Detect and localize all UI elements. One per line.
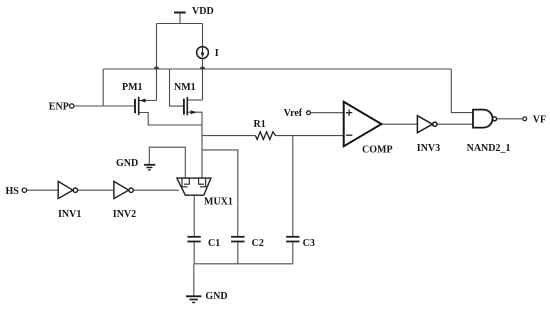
svg-text:GND: GND xyxy=(116,158,138,169)
svg-text:INV3: INV3 xyxy=(417,143,440,154)
wire MUX output to C1 xyxy=(193,195,195,237)
svg-text:INV2: INV2 xyxy=(113,209,136,220)
resistor R1 xyxy=(255,132,275,140)
wire PM1 source lead xyxy=(139,113,202,126)
wire VDD stem xyxy=(179,13,181,24)
ground bottom xyxy=(186,296,201,302)
transistor NM1 xyxy=(184,97,187,115)
minus input mark xyxy=(346,134,352,136)
power VDD xyxy=(174,12,186,14)
current source I xyxy=(197,47,209,59)
inverter INV3 xyxy=(417,116,437,133)
ground mid xyxy=(144,165,155,170)
capacitor C1 xyxy=(187,237,200,242)
wire R1 to comparator minus input xyxy=(276,135,344,137)
nand gate NAND2_1 xyxy=(473,110,493,128)
inverter INV1 xyxy=(58,181,77,198)
capacitor C3 xyxy=(286,237,299,242)
inverter INV2 xyxy=(114,181,133,198)
wire C1 bottom xyxy=(193,241,195,263)
wire node to C2 xyxy=(202,150,238,237)
wire bus left drop to ENP line xyxy=(102,69,104,106)
svg-text:COMP: COMP xyxy=(362,144,393,155)
svg-text:NM1: NM1 xyxy=(174,82,196,93)
wire left drop VDD to PM1 drain xyxy=(156,24,158,101)
wire NM1 source lead xyxy=(188,112,202,125)
svg-text:Vref: Vref xyxy=(284,108,303,119)
terminal Vref xyxy=(307,111,311,115)
svg-text:C3: C3 xyxy=(303,238,315,249)
wire NAND output to VF xyxy=(497,118,523,120)
mux MUX1 xyxy=(177,178,211,195)
terminal HS xyxy=(22,188,26,192)
svg-text:ENP: ENP xyxy=(49,102,69,113)
mux internal pass gate left xyxy=(182,178,189,187)
wire node vertical to MUX xyxy=(201,125,203,178)
op-amp COMP xyxy=(344,102,382,147)
wire INV2 to MUX select xyxy=(133,189,179,191)
wire bus right drop to NAND input xyxy=(451,69,473,113)
wire ENP to PM1 gate xyxy=(74,105,135,107)
mux internal pass gate right xyxy=(199,178,206,187)
wire bottom GND stem xyxy=(193,264,195,296)
svg-text:GND: GND xyxy=(205,291,227,302)
junction right on bus xyxy=(200,66,205,69)
wire bottom bus xyxy=(194,263,293,265)
wire comparator output to INV3 xyxy=(381,123,417,125)
wire top horizontal under VDD xyxy=(157,23,203,25)
nand output bubble xyxy=(493,117,497,121)
terminal VF xyxy=(523,117,527,121)
wire C3 bottom xyxy=(292,241,294,263)
svg-text:R1: R1 xyxy=(254,119,266,130)
wire INV1 to INV2 xyxy=(78,189,114,191)
svg-text:C2: C2 xyxy=(252,238,264,249)
plus input mark xyxy=(346,110,352,116)
wire C3 drop from R1 output node xyxy=(292,136,294,237)
transistor PM1 xyxy=(135,97,139,115)
wire NM1 drain lead xyxy=(188,99,203,101)
wire VDD to current source xyxy=(202,24,204,47)
svg-text:VDD: VDD xyxy=(192,6,214,17)
svg-text:PM1: PM1 xyxy=(122,82,143,93)
svg-text:VF: VF xyxy=(533,115,546,126)
wire Vref to comparator plus input xyxy=(310,112,343,114)
junction left on bus xyxy=(154,66,159,69)
svg-text:C1: C1 xyxy=(208,238,220,249)
svg-text:HS: HS xyxy=(6,186,20,197)
wire HS to INV1 xyxy=(27,189,58,191)
wire node to R1 xyxy=(202,135,255,137)
svg-text:I: I xyxy=(215,48,219,59)
wire PM1 drain lead xyxy=(139,100,157,102)
wire GND to MUX left input xyxy=(149,147,185,178)
wire current source to NM1 drain xyxy=(202,58,204,100)
svg-text:MUX1: MUX1 xyxy=(204,197,233,208)
svg-text:INV1: INV1 xyxy=(58,209,81,220)
wire C2 bottom xyxy=(237,241,239,263)
capacitor C2 xyxy=(231,237,244,242)
svg-text:NAND2_1: NAND2_1 xyxy=(467,143,511,154)
wire main bus node xyxy=(103,68,451,70)
wire INV3 to NAND input xyxy=(437,123,473,125)
wire NM1 gate drop xyxy=(170,69,184,106)
terminal ENP xyxy=(70,104,74,108)
